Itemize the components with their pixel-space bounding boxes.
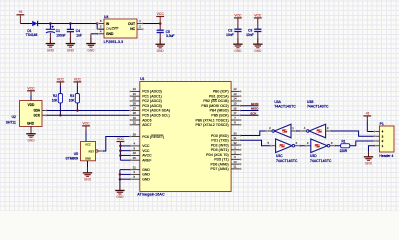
svg-text:PB1 (OC1A): PB1 (OC1A): [209, 94, 229, 98]
svg-text:10K: 10K: [69, 98, 76, 102]
U1 pin 1: [211, 146, 242, 152]
svg-text:PB0 (ICP): PB0 (ICP): [213, 90, 229, 94]
wire U4 GND to ground: [91, 33, 98, 35]
svg-text:GND: GND: [67, 48, 75, 52]
svg-text:3.3uF: 3.3uF: [166, 34, 174, 38]
svg-text:Header 4: Header 4: [379, 154, 393, 158]
svg-text:VCC: VCC: [157, 12, 165, 16]
svg-text:VCC: VCC: [117, 137, 125, 141]
svg-text:C5: C5: [166, 30, 170, 34]
U3B pin 3: [326, 126, 332, 132]
inverter U3A 74ACT14STC: [266, 100, 297, 138]
wire U3B out to U3A in: [296, 130, 301, 132]
svg-text:PD5 (T1): PD5 (T1): [214, 158, 228, 162]
U1 pin 15: [201, 102, 241, 108]
U1 pin 3: [129, 170, 150, 176]
svg-text:27: 27: [133, 106, 137, 110]
svg-text:GND: GND: [85, 157, 91, 161]
U1 pin 16: [210, 106, 242, 112]
svg-text:GND: GND: [142, 173, 150, 177]
svg-text:PC3 (ADC3): PC3 (ADC3): [142, 104, 162, 108]
svg-text:74ACT14STC: 74ACT14STC: [307, 104, 329, 108]
U4 pin 3 ON/OFF: [97, 25, 104, 31]
svg-text:+5: +5: [365, 111, 369, 115]
wire R1 to header pin 2: [350, 141, 375, 146]
svg-text:GND: GND: [116, 195, 124, 199]
inverter U3B 74ACT14STC: [300, 100, 329, 138]
svg-text:14: 14: [233, 97, 237, 101]
svg-text:10nF: 10nF: [246, 33, 254, 37]
ground under U1: [115, 185, 124, 200]
svg-text:C4: C4: [76, 29, 80, 33]
U3D pin 8: [330, 141, 336, 147]
svg-text:24: 24: [133, 92, 137, 96]
diode D1 TS4148: [26, 21, 38, 37]
svg-text:30: 30: [233, 131, 237, 135]
wire tie IN to ON/OFF: [96, 24, 98, 30]
ground under U5: [83, 167, 92, 182]
capacitor C4 1nF: [67, 24, 82, 43]
U4 pin 2 NC: [137, 25, 144, 31]
U1 pin 31: [211, 136, 241, 142]
wire MOSI: [241, 105, 259, 107]
svg-text:28: 28: [133, 111, 137, 115]
svg-text:22: 22: [133, 121, 137, 125]
U1 pin 5: [129, 175, 150, 181]
U2 GND pin wire: [30, 127, 32, 134]
svg-text:SHT11: SHT11: [6, 120, 16, 124]
svg-text:GND: GND: [142, 168, 150, 172]
U1 pin 13: [209, 92, 242, 98]
U3A pin 1: [291, 126, 297, 132]
svg-text:10: 10: [233, 160, 237, 164]
svg-text:SCK: SCK: [250, 111, 256, 115]
svg-text:VDD: VDD: [28, 103, 35, 107]
U1 pin 17: [211, 111, 241, 117]
svg-text:16: 16: [233, 106, 237, 110]
power VCC over C2: [234, 14, 242, 30]
power VCC over R3: [74, 77, 82, 93]
svg-text:PB5 (SCK): PB5 (SCK): [211, 114, 228, 118]
resistor R3 10K: [69, 94, 80, 103]
regulator U4 LP2951-3.3: [104, 15, 137, 44]
svg-text:GND: GND: [87, 48, 95, 52]
svg-text:PC0 (ADC0): PC0 (ADC0): [142, 90, 162, 94]
capacitor C2 10nF: [226, 28, 241, 43]
svg-text:D1: D1: [27, 29, 31, 33]
svg-text:+5: +5: [18, 10, 22, 14]
svg-text:1nF: 1nF: [76, 33, 82, 37]
svg-text:ADC6: ADC6: [142, 118, 151, 122]
ground under U4: [86, 38, 95, 53]
svg-text:GND: GND: [234, 49, 242, 53]
svg-text:U3C: U3C: [276, 154, 283, 158]
svg-text:VCC: VCC: [27, 86, 35, 90]
U1 pin 20: [129, 156, 151, 162]
P1 pin 4: [374, 130, 384, 134]
svg-text:VCC: VCC: [142, 144, 150, 148]
wire U1 GND pins to ground: [119, 170, 121, 190]
svg-text:220R: 220R: [340, 149, 348, 153]
svg-text:GND: GND: [84, 178, 92, 182]
ground under C5: [156, 38, 165, 53]
svg-text:SCK: SCK: [33, 113, 40, 117]
svg-text:PC4 (ADC4 SDA): PC4 (ADC4 SDA): [142, 109, 170, 113]
svg-text:32: 32: [233, 141, 237, 145]
U1 pin 24: [129, 92, 162, 98]
ground under C1: [46, 38, 55, 53]
svg-text:74ACT14STC: 74ACT14STC: [310, 159, 332, 163]
svg-text:GND: GND: [27, 139, 35, 143]
svg-text:PB6 (XTAL1 TOSC1): PB6 (XTAL1 TOSC1): [195, 118, 228, 122]
wire U3D out to R1: [335, 145, 341, 147]
svg-text:26: 26: [133, 102, 137, 106]
svg-text:10K: 10K: [52, 98, 59, 102]
U1 pin 18: [129, 151, 152, 157]
svg-text:VCC: VCC: [234, 14, 242, 18]
svg-text:R1: R1: [342, 139, 346, 143]
power VCC for U1 supply pins: [117, 137, 125, 144]
svg-text:ADC7: ADC7: [142, 123, 151, 127]
wire U3C out to U3D in: [300, 145, 306, 147]
svg-text:VCC: VCC: [82, 121, 90, 125]
junction R3: [76, 109, 79, 112]
U1 pin 11: [211, 165, 242, 171]
svg-text:U4: U4: [104, 15, 108, 19]
svg-text:GND: GND: [365, 162, 373, 166]
svg-text:STM809: STM809: [66, 157, 79, 161]
U1 pin 22: [129, 121, 151, 127]
svg-text:PD6 (AIN0): PD6 (AIN0): [211, 162, 229, 166]
svg-text:74ACT14STC: 74ACT14STC: [276, 159, 298, 163]
svg-text:C1: C1: [56, 29, 60, 33]
ground under C3: [253, 38, 262, 53]
power VCC over U2: [27, 86, 35, 100]
wire U3B in to header pin 3: [331, 131, 375, 136]
svg-text:PB7 (XTAL2 TOSC2): PB7 (XTAL2 TOSC2): [195, 123, 228, 127]
svg-text:PC2 (ADC2): PC2 (ADC2): [142, 99, 162, 103]
svg-text:ON/OFF: ON/OFF: [106, 27, 118, 31]
svg-text:ATmega8-16AC: ATmega8-16AC: [137, 193, 165, 197]
wire rail diode to U4 IN: [38, 23, 98, 25]
svg-text:29: 29: [133, 132, 137, 136]
U1 pin 9: [214, 155, 241, 161]
resistor R1 220R: [340, 139, 350, 153]
svg-text:19: 19: [133, 116, 137, 120]
wire MISO: [241, 109, 259, 111]
U1 pin 14: [203, 97, 241, 103]
P1 pin 1: [374, 144, 384, 148]
U1 pin 19: [129, 116, 151, 122]
junction R2: [59, 114, 62, 117]
svg-text:SDA: SDA: [33, 109, 40, 113]
U1 pin 4: [129, 142, 150, 148]
svg-text:VCC: VCC: [85, 143, 91, 147]
svg-text:C3: C3: [248, 28, 252, 32]
svg-text:12: 12: [233, 87, 237, 91]
U1 pin 25: [129, 97, 162, 103]
svg-text:VCC: VCC: [254, 14, 262, 18]
wire OUT to VCC node: [143, 23, 160, 25]
svg-text:18: 18: [133, 151, 137, 155]
svg-text:PD4 (XCK T0): PD4 (XCK T0): [206, 153, 229, 157]
svg-text:AVCC: AVCC: [142, 154, 152, 158]
svg-text:100nF: 100nF: [56, 33, 65, 37]
U1 pin 26: [129, 102, 162, 108]
U2 pin SCK: [42, 114, 47, 116]
svg-text:GND: GND: [157, 49, 165, 53]
svg-text:GND: GND: [254, 49, 262, 53]
junction VCC pins: [119, 145, 122, 148]
svg-text:MOSI: MOSI: [251, 102, 259, 106]
svg-text:PC1 (ADC1): PC1 (ADC1): [142, 94, 162, 98]
ground under C4: [66, 38, 75, 53]
wire PD0 to U3A output: [241, 131, 267, 136]
svg-text:31: 31: [233, 136, 237, 140]
ground under header: [364, 151, 373, 166]
svg-text:PD1 (TXD): PD1 (TXD): [211, 139, 228, 143]
svg-text:NC: NC: [130, 27, 135, 31]
U1 pin 10: [211, 160, 242, 166]
U1 pin 29: [129, 132, 164, 138]
svg-text:PB2 (SS OC1B): PB2 (SS OC1B): [203, 99, 228, 103]
wire SCK: [241, 114, 259, 116]
inverter U3D 74ACT14STC: [305, 139, 332, 163]
resistor R2 10K: [52, 94, 63, 103]
wire PD1 to U3C input: [241, 140, 271, 145]
U1 pin 12: [213, 87, 242, 93]
svg-text:VCC: VCC: [142, 149, 150, 153]
junction at C4: [69, 22, 72, 25]
wire SCL net: [47, 114, 131, 116]
U4 pin 1 OUT: [137, 19, 144, 25]
svg-text:PB4 (MISO): PB4 (MISO): [210, 109, 229, 113]
svg-text:U1: U1: [140, 77, 144, 81]
U1 pin 23: [129, 87, 162, 93]
svg-text:25: 25: [133, 97, 137, 101]
wire +5 down to rail: [19, 16, 21, 24]
capacitor C5 3.3uF: [157, 24, 175, 44]
wire +5 to header pin 4: [367, 131, 374, 133]
svg-text:PD0 (RXD): PD0 (RXD): [211, 134, 229, 138]
U1 pin 21: [129, 165, 150, 171]
sensor U2 SHT11: [6, 101, 42, 127]
U1 pin 6: [129, 146, 150, 152]
U5 GND wire: [87, 161, 89, 172]
svg-text:U2: U2: [12, 115, 16, 119]
U1 pin 27: [129, 106, 170, 112]
svg-text:21: 21: [133, 165, 137, 169]
svg-text:U3D: U3D: [310, 154, 317, 158]
svg-text:VCC: VCC: [57, 77, 65, 81]
junction at C5: [159, 22, 162, 25]
svg-text:15: 15: [233, 102, 237, 106]
svg-text:TS4148: TS4148: [26, 33, 38, 37]
U4 pin 8 IN: [97, 19, 104, 25]
power +5 over header: [363, 111, 371, 131]
svg-text:20: 20: [133, 156, 137, 160]
svg-text:PD3 (INT1): PD3 (INT1): [211, 148, 229, 152]
supervisor U5 STM809: [66, 142, 96, 161]
P1 pin 3: [374, 134, 384, 138]
U1 pin 8: [195, 121, 241, 127]
svg-text:10nF: 10nF: [226, 33, 234, 37]
svg-text:11: 11: [234, 165, 237, 169]
wire header pin1 to ground: [369, 146, 375, 156]
U4 pin 4 GND: [97, 29, 104, 35]
U1 pin 2: [206, 150, 242, 156]
U1 pin 30: [211, 131, 242, 137]
svg-text:PC5 (ADC5 SCL): PC5 (ADC5 SCL): [142, 114, 170, 118]
MCU U1 ATmega8-16AC body: [137, 77, 231, 197]
svg-text:U5: U5: [74, 152, 78, 156]
svg-text:13: 13: [233, 92, 237, 96]
P1 pin 2: [374, 139, 384, 143]
wire R2 to bus: [59, 103, 61, 115]
U1 pin 32: [211, 141, 242, 147]
ground under C2: [233, 38, 242, 53]
svg-text:GND: GND: [47, 48, 55, 52]
svg-text:LP2951-3.3: LP2951-3.3: [104, 40, 124, 44]
U3C pin 6: [295, 141, 301, 147]
U1 pin 28: [129, 111, 170, 117]
junction at U4 input tie: [96, 22, 99, 25]
svg-text:MISO: MISO: [251, 107, 259, 111]
svg-text:PD2 (INT0): PD2 (INT0): [211, 143, 229, 147]
U2 pin SDA: [42, 109, 47, 111]
svg-text:17: 17: [233, 111, 237, 115]
U1 pin 7: [195, 116, 241, 122]
svg-text:AREF: AREF: [142, 158, 151, 162]
svg-text:PD7 (AIN1): PD7 (AIN1): [211, 167, 229, 171]
svg-text:23: 23: [133, 87, 137, 91]
svg-text:PC6 (RESET): PC6 (RESET): [142, 135, 164, 139]
power VCC over C3: [254, 14, 262, 30]
power VCC over R2: [57, 77, 65, 93]
svg-text:GND: GND: [106, 32, 114, 36]
U5 RST pin bubble: [96, 150, 98, 152]
svg-text:74ACT14STC: 74ACT14STC: [274, 104, 296, 108]
junction at C1: [49, 22, 52, 25]
wire VCC rail to U1 VCC/AVCC/AREF: [119, 144, 121, 161]
wire R3 to bus: [76, 103, 78, 111]
connector P1 Header 4: [379, 122, 394, 158]
svg-text:GND: GND: [142, 177, 150, 181]
svg-text:P1: P1: [380, 122, 384, 126]
svg-text:PB3 (MOSI OC2): PB3 (MOSI OC2): [201, 104, 228, 108]
capacitor C3 10nF: [246, 28, 261, 43]
svg-text:RST: RST: [89, 149, 95, 153]
svg-text:OUT: OUT: [128, 22, 135, 26]
power VCC over U5: [82, 121, 90, 141]
capacitor C1 100nF: [46, 24, 66, 43]
wire SDA net: [47, 109, 131, 111]
power VCC at regulator output: [156, 12, 164, 23]
wire RST to U1 RESET: [103, 137, 130, 152]
svg-text:VCC: VCC: [74, 77, 82, 81]
svg-text:C2: C2: [228, 28, 232, 32]
ground under U2: [26, 128, 35, 143]
inverter U3C 74ACT14STC: [270, 139, 298, 163]
svg-text:GND: GND: [27, 122, 35, 126]
